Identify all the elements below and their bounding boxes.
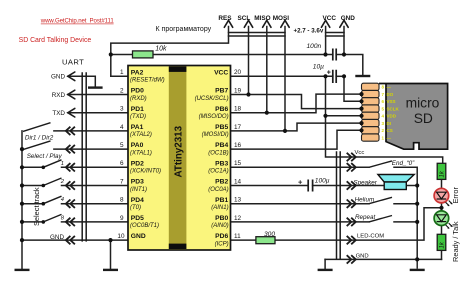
svg-text:PB1: PB1 [215, 197, 228, 204]
arrow up SCL [244, 20, 252, 27]
svg-text:VCC: VCC [323, 15, 337, 22]
wire: VCC arrow shaft down to VCC rail [325, 27, 327, 55]
node: bus at track 2 [20, 183, 24, 187]
wire: VCC vertical to SD VDD and down to Vcc out row [326, 76, 443, 163]
svg-text:16: 16 [234, 142, 242, 149]
node: bus at GND row [20, 238, 24, 242]
svg-text:(ICP): (ICP) [215, 241, 229, 247]
svg-text:Ready / Talk: Ready / Talk [451, 221, 460, 262]
node: MOSI to pin 17 [283, 129, 287, 133]
LED Error (red) [434, 188, 452, 206]
node: VCC at 10u [323, 74, 327, 78]
SD pad 2 [362, 127, 380, 134]
wire: right GND row [325, 258, 441, 260]
svg-text:www.GetChip.net Post#111: www.GetChip.net Post#111 [40, 18, 115, 25]
arrow up VCC [321, 20, 329, 27]
svg-text:18: 18 [234, 106, 242, 113]
chevron right GND row [347, 255, 356, 263]
svg-text:PD4: PD4 [131, 197, 144, 204]
svg-text:2 CS: 2 CS [382, 128, 393, 133]
wire: left switch common bus [21, 131, 23, 240]
wire: RXD line to pin 2 [68, 94, 128, 96]
wire: End_"0" row pin 15 to switch [231, 166, 370, 168]
wire: right GND ground drop [324, 259, 326, 268]
arrow left GND (UART) [68, 72, 75, 81]
wire: pin 18 MISO/DO staircase to SD pin 7 [231, 94, 362, 113]
chevron right Speaker row [347, 181, 356, 189]
wire: GND arrow shaft down to GND node [343, 27, 345, 55]
micro SD card body [379, 84, 448, 150]
node: GND at 10u [342, 74, 346, 78]
svg-text:1k: 1k [440, 170, 446, 177]
svg-text:PB2: PB2 [215, 179, 228, 186]
svg-text:RXD: RXD [52, 92, 66, 99]
wire: track switch 2 row to pin 7 [22, 185, 128, 187]
arrow up MOSI [281, 20, 289, 27]
chevron right LED-COM row [347, 236, 356, 244]
ground (chip GND pin 10) [103, 269, 118, 271]
wire: MOSI vertical from arrow to pin 17 [284, 27, 286, 131]
wire: VCC rail with 10k through 100n left plate [111, 54, 333, 56]
svg-text:SD Card Talking Device: SD Card Talking Device [19, 37, 92, 44]
svg-text:(MISO/DO): (MISO/DO) [199, 114, 229, 120]
wire: pin 17 MOSI/DI staircase to SD pin 3 [231, 123, 362, 131]
capacitor 100u electrolytic [308, 180, 312, 192]
svg-text:PD2: PD2 [131, 160, 144, 167]
svg-text:GND: GND [131, 233, 146, 240]
svg-text:PD3: PD3 [131, 179, 144, 186]
wire: VCC rail right of 100n to ground drop [336, 55, 363, 75]
wire: left bus ground drop [21, 240, 23, 269]
svg-text:1k: 1k [440, 241, 446, 248]
switch track 8 [43, 214, 61, 222]
wire: LED chain vertical segments [441, 179, 443, 259]
wire: programmer ribbon rail upper left segment [229, 32, 286, 34]
ground (left bus bottom) [15, 269, 30, 271]
wire: left GND row to pin 10 [22, 239, 128, 241]
arrow left RXD [68, 90, 75, 99]
switch Dir1/Dir2 [23, 123, 51, 132]
svg-text:(OC1A): (OC1A) [208, 169, 228, 175]
SD pad 8 [362, 83, 380, 90]
chevron left row8 [66, 200, 75, 208]
node: VCC vertical at VDD row [323, 114, 327, 118]
svg-text:12: 12 [234, 215, 242, 222]
ground (right GND row) [318, 269, 333, 271]
wire: SCL vertical from arrow to pin 19 [248, 27, 250, 95]
svg-text:PB0: PB0 [215, 215, 228, 222]
wire: pin 20 VCC row to 10u cap [231, 75, 333, 77]
wire: RES programming line from arrow down-left to pin 1 [111, 27, 229, 77]
SD pad 5 [362, 105, 380, 112]
chevron left row5 [66, 145, 75, 153]
wire: TXD line to pin 3 [68, 112, 128, 114]
svg-text:2: 2 [120, 87, 124, 94]
svg-text:(OC1B): (OC1B) [208, 150, 228, 156]
svg-text:micro: micro [406, 96, 440, 111]
svg-text:(AIN1): (AIN1) [211, 205, 228, 211]
svg-text:(AIN0): (AIN0) [211, 223, 228, 229]
svg-text:PB6: PB6 [215, 106, 228, 113]
wire: right LED GND symbol drop [416, 259, 418, 268]
svg-text:(MOSI/DI): (MOSI/DI) [202, 132, 229, 138]
svg-text:Select / Play: Select / Play [27, 153, 63, 160]
chevron left row6 [66, 163, 75, 171]
node: SD pin 7 [359, 92, 363, 96]
resistor 1k lower [437, 234, 446, 250]
svg-text:(RXD): (RXD) [130, 96, 147, 102]
svg-text:PD6: PD6 [215, 233, 228, 240]
svg-text:PB7: PB7 [215, 88, 228, 95]
wire: speaker to common vertical [406, 185, 417, 187]
svg-text:ATtiny2313: ATtiny2313 [173, 125, 184, 177]
svg-text:6: 6 [120, 160, 124, 167]
wire: track switch 8 row to pin 9 [22, 221, 128, 223]
node: Repeat to common vertical [415, 220, 419, 224]
svg-text:(XCK/INT0): (XCK/INT0) [130, 169, 161, 175]
svg-text:Vcc: Vcc [355, 150, 365, 156]
svg-text:8 —: 8 — [382, 85, 392, 90]
svg-text:6 VSS: 6 VSS [382, 99, 396, 104]
chevron left row4 [66, 127, 75, 135]
node: SD pin 6 [359, 99, 363, 103]
arrow left TXD [68, 108, 75, 117]
svg-text:TXD: TXD [52, 110, 65, 117]
svg-text:UART: UART [62, 57, 84, 66]
chevron right Helium row [347, 200, 356, 208]
svg-text:1 —: 1 — [382, 135, 392, 140]
switch Select/Play [23, 141, 51, 150]
node: SD pin 5 [359, 107, 363, 111]
svg-text:13: 13 [234, 197, 242, 204]
node: LED-COM at LED chain [439, 206, 443, 210]
node: common vertical at GND row [415, 257, 419, 261]
svg-text:(XTAL2): (XTAL2) [130, 132, 152, 138]
svg-text:3: 3 [120, 106, 124, 113]
wire: pin 19 SCL/SCLK staircase to SD pin 5 [231, 95, 362, 109]
SD pin labels [382, 85, 400, 141]
switch track 2 [43, 178, 61, 186]
node: speaker to common vertical [415, 183, 419, 187]
svg-text:Helium: Helium [355, 197, 375, 204]
svg-text:PB4: PB4 [215, 142, 228, 149]
node: track 2 pivot [42, 184, 46, 188]
svg-text:End_“0”: End_“0” [392, 160, 415, 167]
svg-text:100µ: 100µ [315, 177, 330, 184]
svg-text:Repeat: Repeat [355, 214, 376, 221]
svg-text:4 VDD: 4 VDD [382, 114, 397, 119]
svg-text:14: 14 [234, 178, 242, 185]
wire: End_"0" switch output down the common vertical to GND row [394, 167, 417, 259]
arrow up MISO [263, 20, 271, 27]
node: track 1 pivot [42, 166, 46, 170]
wire: 100u cap to speaker [313, 185, 385, 187]
node: bus at track 8 [20, 220, 24, 224]
node: track 4 pivot [42, 202, 46, 206]
capacitor 10u electrolytic [333, 70, 336, 83]
svg-text:4: 4 [61, 197, 64, 203]
chevron left row7 [66, 181, 75, 189]
wire: Dir1/Dir2 switch row to pin 4 [54, 130, 128, 132]
svg-text:Select track: Select track [32, 187, 41, 226]
svg-text:7 DO: 7 DO [382, 92, 394, 97]
svg-text:(OC0A): (OC0A) [208, 187, 228, 193]
wire: pin 1 stub to chip [111, 75, 128, 77]
wire: Helium row pin 13 to switch [231, 203, 370, 205]
resistor 1k upper [437, 163, 446, 179]
IC body ATtiny2313 [128, 66, 231, 251]
wire: pin10 ground drop [110, 240, 112, 269]
wire: programmer ribbon rail lower left segment [229, 35, 286, 37]
svg-text:GND: GND [51, 74, 65, 81]
svg-text:(RESET/dW): (RESET/dW) [130, 78, 165, 84]
wire: programmer ribbon rail lower right segment [326, 35, 344, 37]
svg-text:GND: GND [50, 234, 64, 241]
node: MISO to pin 18 [265, 111, 269, 115]
arrow up RES [224, 20, 232, 27]
node: GND at 100n [342, 52, 346, 56]
resistor 10k [133, 45, 167, 58]
svg-text:300: 300 [264, 231, 275, 238]
chevron right Vcc row [347, 153, 356, 161]
SD pad 1 [362, 134, 380, 141]
arrow up GND [340, 20, 348, 27]
node: 10k tap on RES line [109, 52, 113, 56]
wire: 10u right plate to GND vertical [336, 75, 344, 77]
svg-text:MOSI: MOSI [273, 15, 290, 22]
svg-text:100n: 100n [307, 43, 322, 50]
node: SD pin 2 [359, 128, 363, 132]
svg-text:+2.7 - 3.6v: +2.7 - 3.6v [294, 28, 324, 35]
wire: track switch 4 row to pin 8 [22, 203, 128, 205]
node: track 8 pivot [42, 220, 46, 224]
node: bus at Select/Play [20, 147, 24, 151]
svg-text:20: 20 [234, 69, 242, 76]
node: bus at track 1 [20, 165, 24, 169]
wire: UART GND arrow line to ground [68, 76, 96, 86]
svg-text:PA0: PA0 [131, 142, 144, 149]
ground (right LED GND) [410, 269, 425, 271]
svg-text:1: 1 [120, 69, 124, 76]
SD pad 7 [362, 90, 380, 97]
svg-text:(T0): (T0) [130, 205, 141, 211]
node: SD pin 4 [359, 114, 363, 118]
svg-text:PD0: PD0 [131, 88, 144, 95]
svg-text:5: 5 [120, 142, 124, 149]
SD pad 6 [362, 98, 380, 105]
svg-text:PD5: PD5 [131, 215, 144, 222]
node: SCL to pin 19 [246, 92, 250, 96]
wire: Repeat switch output to common vertical [394, 221, 417, 223]
svg-text:5 SCLK: 5 SCLK [382, 106, 400, 111]
resistor 300 [256, 231, 275, 244]
LED Ready/Talk (green) [434, 211, 452, 229]
wire: Select/Play switch row to pin 5 [54, 148, 128, 150]
svg-text:19: 19 [234, 87, 242, 94]
svg-text:(TXD): (TXD) [130, 114, 146, 120]
svg-text:SD: SD [414, 111, 433, 126]
svg-text:17: 17 [234, 124, 242, 131]
wire: Helium switch output to common vertical [394, 203, 417, 205]
svg-text:GND: GND [356, 254, 369, 260]
svg-text:PA1: PA1 [131, 124, 144, 131]
wire: GND vertical to SD VSS [344, 76, 362, 101]
svg-text:11: 11 [234, 233, 241, 240]
switch Repeat [369, 216, 392, 222]
wire: speaker row pin 14 to 100u cap [231, 185, 309, 187]
wire: programmer ribbon rail upper right segment [326, 32, 344, 34]
wire: VDD row to SD pin 4 [326, 115, 362, 117]
chevron right End row [347, 163, 356, 171]
capacitor 100n [333, 49, 336, 61]
node: VCC rail at 100n [323, 52, 327, 56]
node: Helium to common vertical [415, 202, 419, 206]
svg-text:7: 7 [120, 178, 124, 185]
svg-text:Error: Error [451, 187, 460, 204]
svg-text:9: 9 [120, 215, 124, 222]
svg-text:(XTAL1): (XTAL1) [130, 150, 152, 156]
wire: LED-COM row pin 11 through 300 resistor riser to LED node [231, 208, 442, 240]
chevron right Repeat row [347, 218, 356, 226]
svg-text:SCL: SCL [238, 15, 251, 22]
svg-text:+: + [298, 178, 303, 187]
svg-text:LED-COM: LED-COM [357, 233, 384, 239]
node: pin10 ground drop [108, 238, 112, 242]
chevron left row9 [66, 218, 75, 226]
switch Helium [369, 197, 392, 203]
switch track 1 [43, 160, 61, 168]
svg-text:PA2: PA2 [131, 69, 144, 76]
wire: track switch 1 row to pin 6 [22, 166, 128, 168]
svg-text:10µ: 10µ [313, 63, 324, 70]
svg-text:GND: GND [341, 15, 356, 22]
connector left (double line) [82, 72, 86, 241]
switch End_"0" [369, 161, 392, 167]
svg-text:15: 15 [234, 160, 242, 167]
SD pad 4 [362, 112, 380, 119]
svg-text:PD1: PD1 [131, 106, 144, 113]
node: bus at track 4 [20, 202, 24, 206]
switch track 4 [43, 196, 61, 204]
svg-text:MISO: MISO [254, 15, 270, 22]
ground (top right near caps) [355, 75, 370, 77]
chevron left GND row [66, 236, 75, 244]
svg-text:1: 1 [61, 161, 64, 167]
svg-text:Speaker: Speaker [353, 179, 377, 186]
svg-text:PB5: PB5 [215, 124, 228, 131]
connector right (double line) [337, 151, 341, 259]
svg-text:PB3: PB3 [215, 160, 228, 167]
svg-text:RES: RES [218, 15, 232, 22]
svg-text:(UCSK/SCL): (UCSK/SCL) [195, 96, 229, 102]
wire: MISO vertical from arrow to pin 18 [266, 27, 268, 113]
svg-text:VCC: VCC [214, 69, 228, 76]
svg-text:К программатору: К программатору [156, 26, 212, 33]
SD pad 3 [362, 119, 380, 126]
node: SD pin 3 [359, 121, 363, 125]
svg-text:3 DI: 3 DI [382, 121, 392, 126]
svg-text:4: 4 [120, 124, 124, 131]
speaker symbol [378, 175, 414, 190]
ground (UART GND) [88, 86, 103, 88]
wire: pin 16 to SD pin 2 CS [231, 130, 362, 149]
svg-text:10: 10 [117, 233, 125, 240]
svg-text:10k: 10k [155, 45, 167, 52]
svg-text:(INT1): (INT1) [130, 187, 147, 193]
svg-text:(OC0B/T1): (OC0B/T1) [130, 223, 159, 229]
wire: Repeat row pin 12 to switch [231, 221, 370, 223]
svg-text:8: 8 [120, 197, 124, 204]
